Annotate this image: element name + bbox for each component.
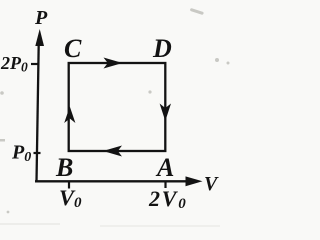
scan speckles xyxy=(0,8,230,227)
V axis (horizontal) xyxy=(35,180,188,182)
svg-text:D: D xyxy=(152,34,172,63)
P axis (vertical) xyxy=(37,38,39,182)
tick P0 on P axis xyxy=(34,152,41,154)
V axis arrowhead xyxy=(186,176,203,186)
tick V0 on V axis xyxy=(68,181,70,189)
svg-text:A: A xyxy=(155,153,174,182)
arrow A to B (leftward on bottom edge) xyxy=(103,146,122,157)
svg-text:C: C xyxy=(64,34,82,63)
arrow C to D (rightward on top edge) xyxy=(104,58,123,69)
tick 2V0 on V axis xyxy=(164,181,166,188)
arrow B to C (upward on left edge) xyxy=(64,107,75,124)
svg-text:V: V xyxy=(204,173,219,195)
svg-text:P: P xyxy=(34,7,48,29)
arrow D to A (downward on right edge) xyxy=(160,104,171,122)
P axis arrowhead xyxy=(35,29,44,46)
svg-text:B: B xyxy=(55,153,73,182)
tick 2P0 on P axis xyxy=(31,63,39,65)
cycle square (B-C-D-A) xyxy=(69,63,166,151)
